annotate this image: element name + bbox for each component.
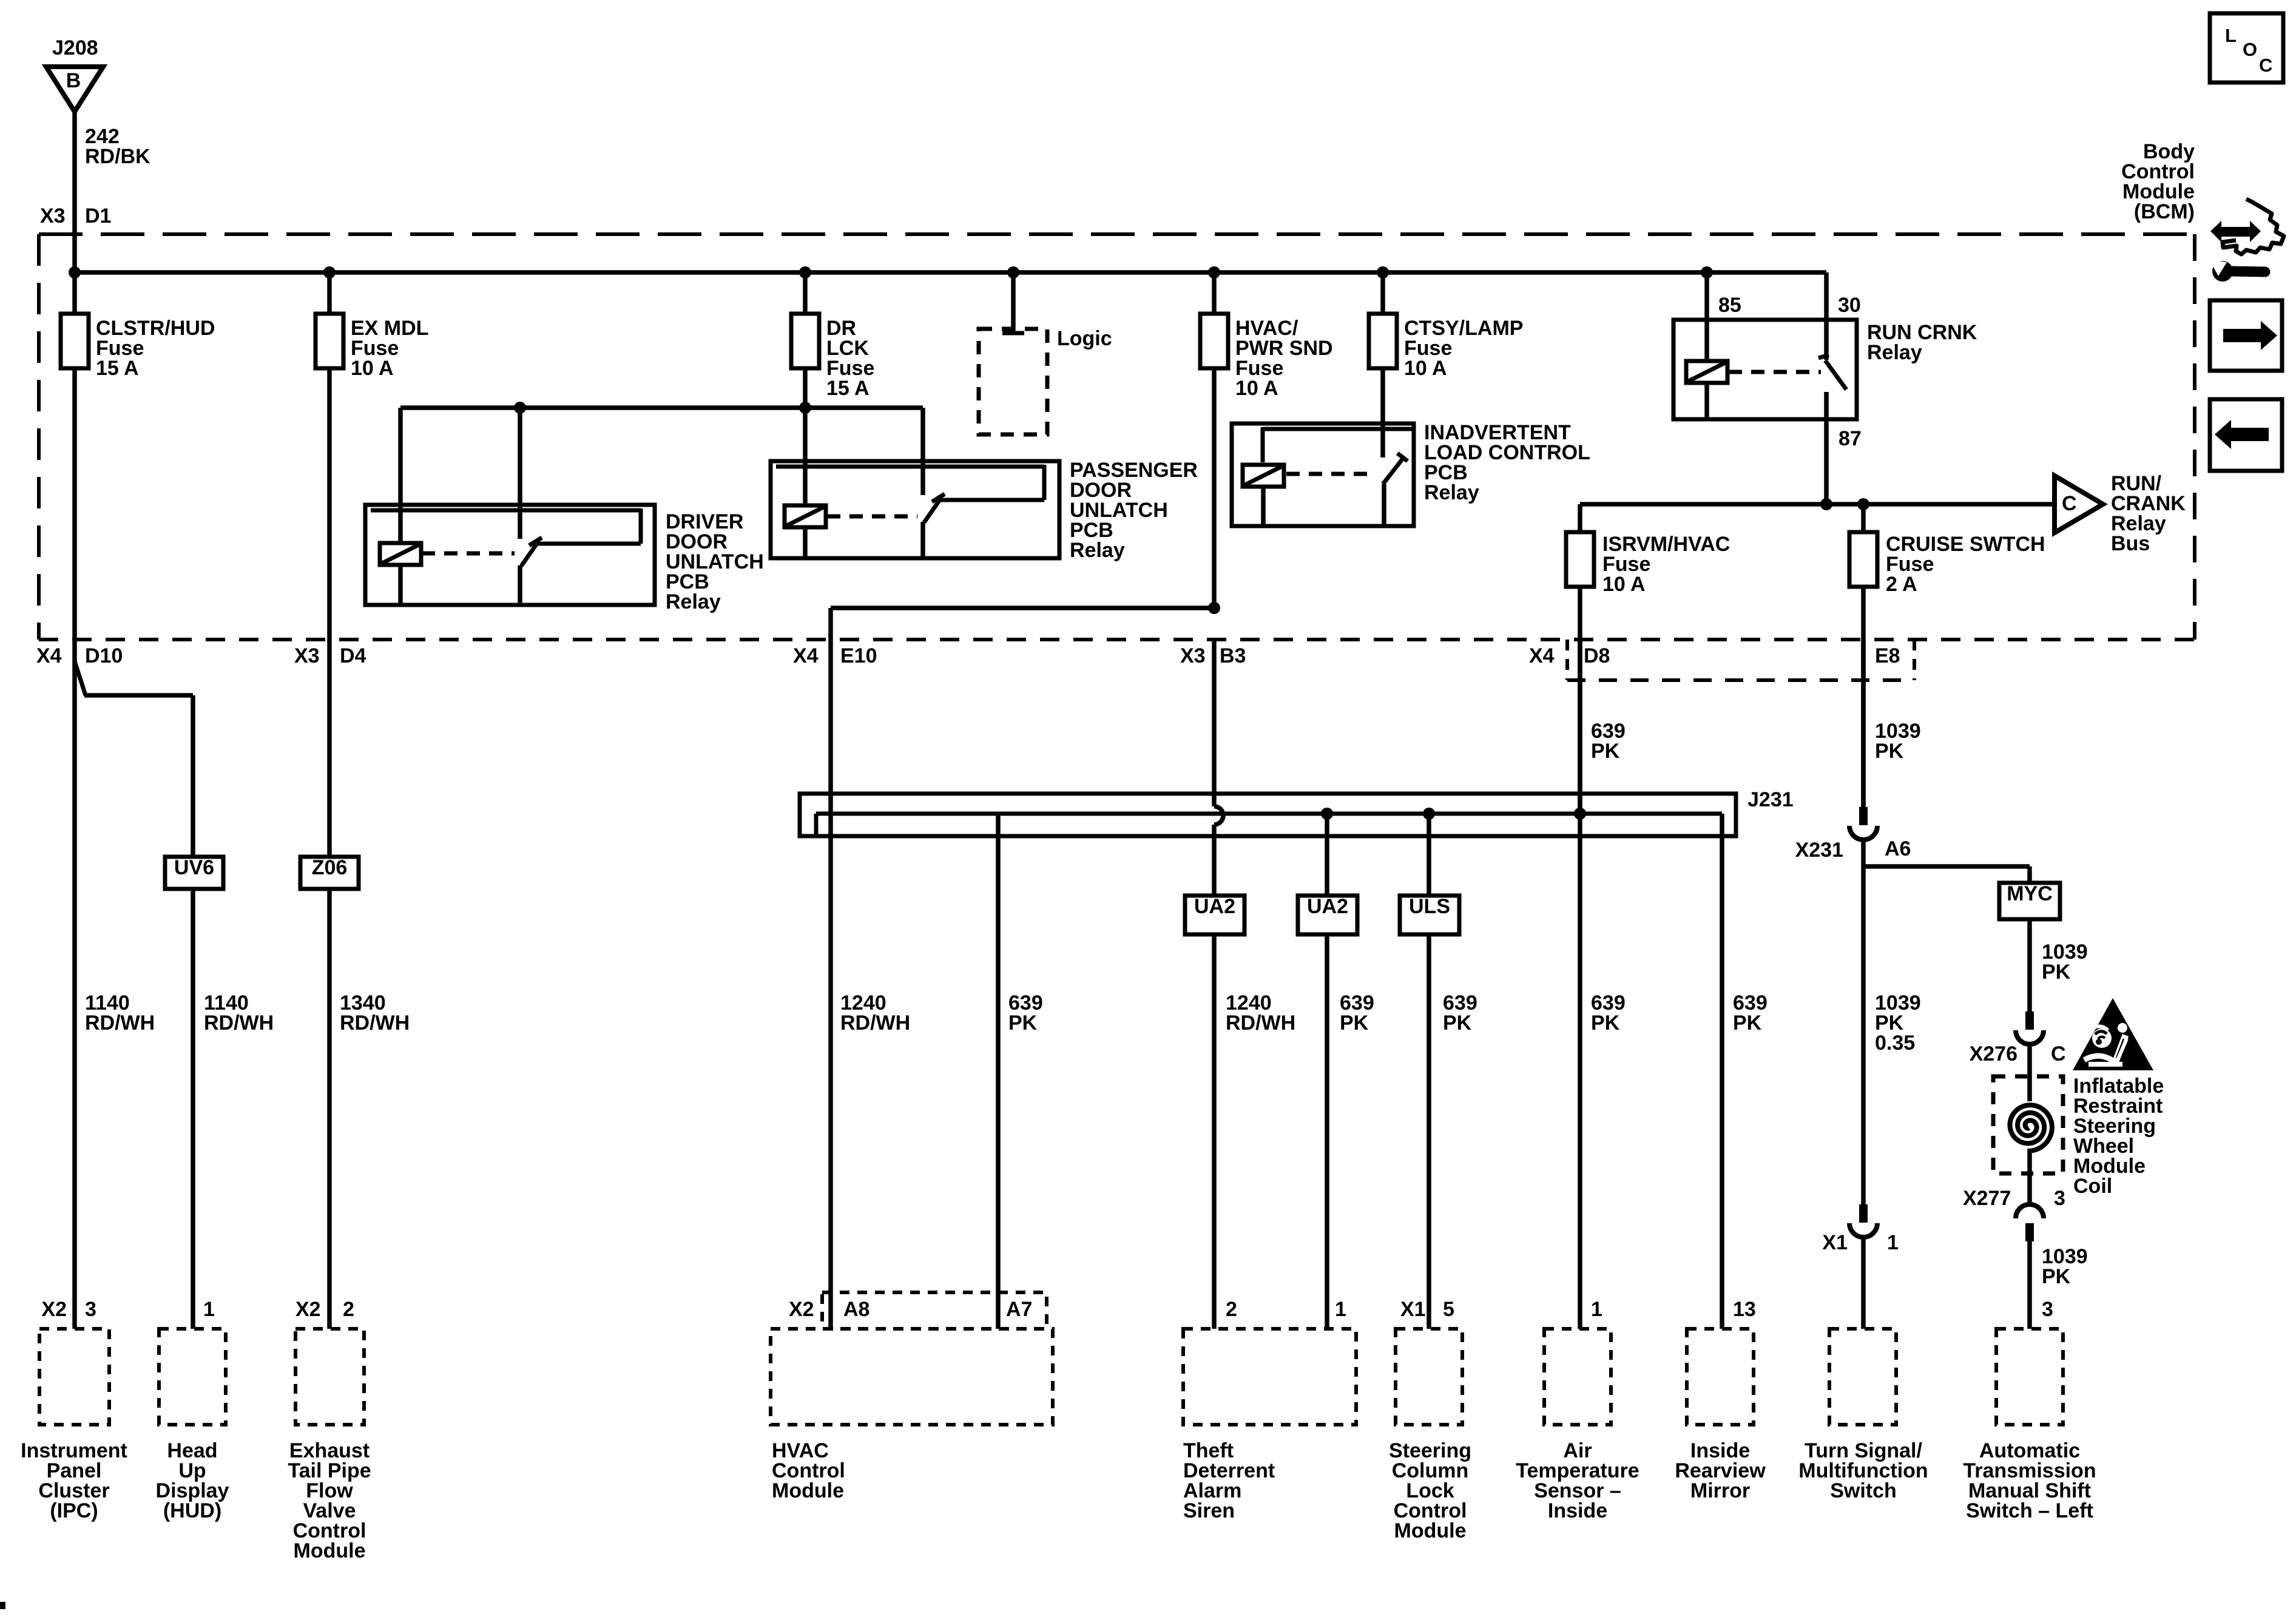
svg-text:2: 2 xyxy=(1226,1298,1237,1321)
svg-text:10 A: 10 A xyxy=(1404,357,1447,380)
svg-text:PK: PK xyxy=(1591,740,1620,763)
svg-text:UA2: UA2 xyxy=(1194,895,1235,918)
svg-text:L: L xyxy=(2225,25,2237,46)
svg-text:UV6: UV6 xyxy=(174,856,214,879)
svg-text:D1: D1 xyxy=(85,204,111,228)
svg-text:Inside: Inside xyxy=(1548,1499,1607,1522)
svg-text:B3: B3 xyxy=(1220,644,1246,667)
svg-text:PK: PK xyxy=(1443,1011,1472,1035)
svg-text:D8: D8 xyxy=(1584,644,1610,667)
svg-text:Bus: Bus xyxy=(2111,532,2150,555)
svg-text:Coil: Coil xyxy=(2073,1175,2112,1198)
svg-text:PK: PK xyxy=(1733,1011,1762,1035)
svg-text:X2: X2 xyxy=(295,1298,321,1321)
svg-text:10 A: 10 A xyxy=(1602,573,1646,596)
svg-text:Module: Module xyxy=(772,1479,844,1502)
svg-text:3: 3 xyxy=(2054,1187,2065,1210)
svg-text:1: 1 xyxy=(1335,1298,1346,1321)
svg-text:X1: X1 xyxy=(1400,1298,1426,1321)
svg-text:(HUD): (HUD) xyxy=(163,1499,221,1522)
svg-text:15 A: 15 A xyxy=(826,377,869,400)
svg-text:A8: A8 xyxy=(843,1298,869,1321)
svg-text:PK: PK xyxy=(1591,1011,1620,1035)
svg-text:E10: E10 xyxy=(840,644,877,667)
svg-text:1: 1 xyxy=(1591,1298,1602,1321)
svg-text:3: 3 xyxy=(85,1298,96,1321)
svg-text:1: 1 xyxy=(203,1298,215,1321)
svg-text:MYC: MYC xyxy=(2007,882,2053,905)
svg-text:X3: X3 xyxy=(1180,644,1206,667)
svg-text:(IPC): (IPC) xyxy=(50,1499,98,1522)
svg-text:87: 87 xyxy=(1838,427,1862,450)
svg-text:C: C xyxy=(2259,55,2272,76)
svg-text:RD/WH: RD/WH xyxy=(204,1011,274,1035)
svg-text:X231: X231 xyxy=(1795,839,1843,862)
svg-text:X277: X277 xyxy=(1963,1187,2011,1210)
svg-text:X4: X4 xyxy=(36,644,62,667)
svg-text:2: 2 xyxy=(343,1298,354,1321)
svg-text:10 A: 10 A xyxy=(351,357,394,380)
svg-text:PK: PK xyxy=(2042,960,2071,984)
svg-text:Relay: Relay xyxy=(1867,341,1922,364)
svg-text:PK: PK xyxy=(1340,1011,1369,1035)
svg-text:D10: D10 xyxy=(85,644,123,667)
svg-text:RD/BK: RD/BK xyxy=(85,145,150,168)
svg-text:RD/WH: RD/WH xyxy=(85,1011,155,1035)
svg-text:5: 5 xyxy=(1443,1298,1454,1321)
svg-text:X2: X2 xyxy=(41,1298,67,1321)
svg-text:X3: X3 xyxy=(294,644,320,667)
svg-text:X2: X2 xyxy=(789,1298,814,1321)
svg-text:RD/WH: RD/WH xyxy=(1226,1011,1295,1035)
svg-text:ULS: ULS xyxy=(1409,895,1450,918)
svg-text:RD/WH: RD/WH xyxy=(840,1011,910,1035)
svg-text:Z06: Z06 xyxy=(312,856,348,879)
svg-text:Module: Module xyxy=(1394,1519,1467,1542)
svg-text:J231: J231 xyxy=(1747,788,1794,811)
svg-text:X4: X4 xyxy=(1529,644,1555,667)
svg-text:Relay: Relay xyxy=(1424,481,1479,504)
svg-text:13: 13 xyxy=(1733,1298,1756,1321)
svg-text:Module: Module xyxy=(294,1539,366,1562)
svg-text:E8: E8 xyxy=(1875,644,1900,667)
svg-text:Mirror: Mirror xyxy=(1690,1479,1750,1502)
svg-text:0.35: 0.35 xyxy=(1875,1031,1915,1055)
svg-text:Switch: Switch xyxy=(1830,1479,1897,1502)
svg-text:Relay: Relay xyxy=(666,590,721,613)
svg-text:10 A: 10 A xyxy=(1235,377,1278,400)
svg-text:X3: X3 xyxy=(40,204,66,228)
svg-text:RD/WH: RD/WH xyxy=(340,1011,410,1035)
svg-text:UA2: UA2 xyxy=(1307,895,1348,918)
svg-text:A6: A6 xyxy=(1885,837,1911,860)
svg-text:X1: X1 xyxy=(1822,1231,1848,1254)
svg-text:Logic: Logic xyxy=(1057,327,1112,350)
svg-text:30: 30 xyxy=(1838,294,1861,317)
svg-text:D4: D4 xyxy=(340,644,366,667)
svg-text:Switch – Left: Switch – Left xyxy=(1966,1499,2093,1522)
svg-text:C: C xyxy=(2062,492,2077,515)
svg-text:Siren: Siren xyxy=(1183,1499,1235,1522)
svg-text:1: 1 xyxy=(1887,1231,1899,1254)
svg-text:85: 85 xyxy=(1718,294,1741,317)
svg-text:J208: J208 xyxy=(52,36,98,59)
svg-text:2 A: 2 A xyxy=(1886,573,1917,596)
svg-text:O: O xyxy=(2243,39,2257,60)
svg-text:A7: A7 xyxy=(1006,1298,1032,1321)
svg-text:3: 3 xyxy=(2042,1298,2053,1321)
svg-text:X4: X4 xyxy=(793,644,819,667)
svg-text:C: C xyxy=(2051,1042,2066,1065)
svg-text:15 A: 15 A xyxy=(96,357,139,380)
svg-text:PK: PK xyxy=(2042,1265,2071,1288)
svg-text:PK: PK xyxy=(1008,1011,1038,1035)
svg-text:X276: X276 xyxy=(1970,1042,2017,1065)
svg-text:B: B xyxy=(66,69,81,92)
svg-text:PK: PK xyxy=(1875,740,1904,763)
svg-text:(BCM): (BCM) xyxy=(2134,200,2195,223)
svg-text:Relay: Relay xyxy=(1070,539,1125,562)
